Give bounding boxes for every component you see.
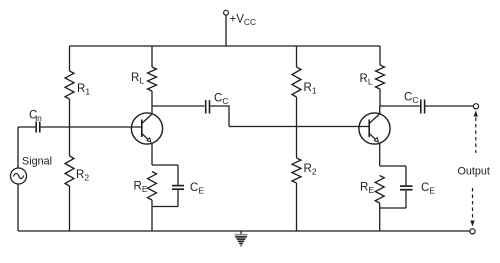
capacitor Cc (interstage): [206, 93, 229, 114]
transistor Q2: [359, 113, 390, 144]
resistor R2 (left): [65, 156, 89, 186]
capacitor Cin: [29, 110, 42, 133]
svg-text:in: in: [35, 113, 42, 123]
resistor RL (right): [360, 65, 385, 89]
wire top supply rail: [70, 45, 381, 47]
wire bottom ground rail: [18, 230, 470, 232]
svg-text:R2: R2: [76, 169, 89, 183]
output terminal bottom: [470, 229, 475, 234]
capacitor CE (left): [172, 165, 204, 207]
svg-text:R2: R2: [304, 163, 317, 177]
svg-text:R1: R1: [77, 83, 90, 97]
svg-text:CC: CC: [404, 92, 418, 106]
resistor R1 (left): [65, 71, 90, 99]
wire Q2 emitter: [379, 143, 381, 166]
wire signal source bottom: [17, 184, 19, 231]
svg-text:RL: RL: [360, 73, 373, 87]
svg-text:CE: CE: [421, 182, 435, 196]
capacitor CE (right): [400, 166, 435, 208]
output arrow bottom (dashed): [470, 188, 474, 227]
wire RL right top: [379, 46, 381, 65]
svg-text:Signal: Signal: [22, 156, 52, 168]
emitter combo left: top wire: [152, 164, 178, 166]
capacitor Cc (output): [404, 92, 425, 114]
wire left bias column top: [69, 46, 71, 71]
wire Cc to base of Q2: [210, 105, 229, 107]
wire input left of Cin: [18, 126, 35, 128]
svg-text:R1: R1: [304, 82, 317, 96]
svg-text:RL: RL: [131, 72, 144, 86]
resistor R1 (right): [292, 67, 317, 97]
wire right bias column top: [296, 46, 298, 67]
wire signal source top: [17, 127, 19, 168]
transistor Q1: [131, 113, 162, 144]
emitter combo right: top wire: [380, 165, 406, 167]
wire collector node to Cc output: [380, 105, 420, 107]
svg-text:CE: CE: [190, 182, 204, 196]
resistor RL (left): [131, 67, 157, 91]
wire RE left to ground rail: [151, 200, 153, 231]
ground: [235, 231, 248, 246]
svg-text:+VCC: +VCC: [230, 14, 257, 28]
resistor R2 (right): [292, 158, 317, 183]
wire Q1 emitter: [151, 143, 153, 165]
emitter combo left: bottom wire: [152, 206, 178, 208]
wire RL left top: [151, 46, 153, 67]
power terminal +Vcc: [224, 10, 257, 46]
wire Q2 collector: [379, 106, 381, 114]
output arrow top (dashed): [474, 111, 478, 154]
svg-text:RE: RE: [134, 181, 148, 195]
wire Cc to output terminal: [425, 105, 473, 107]
wire collector node to Cc: [152, 105, 205, 107]
wire R1 right to base node: [296, 97, 298, 158]
wire RE right to ground rail: [379, 203, 381, 231]
emitter combo right: bottom wire: [380, 207, 406, 209]
svg-text:CC: CC: [214, 93, 228, 107]
svg-text:RE: RE: [360, 182, 374, 196]
wire R2 to ground rail: [69, 186, 71, 231]
output terminal top: [473, 104, 478, 109]
resistor RE (right): [360, 176, 384, 204]
wire R1 to base node: [69, 99, 71, 156]
resistor RE (left): [134, 172, 157, 201]
signal source (AC): [11, 156, 53, 185]
wire RL to collector node: [151, 91, 153, 106]
wire R2 right to ground rail: [296, 183, 298, 231]
wire Cin to base of Q1: [41, 126, 142, 128]
wire Q1 collector: [151, 106, 153, 114]
wire RL right to collector node: [379, 89, 381, 106]
svg-text:Output: Output: [458, 166, 490, 178]
